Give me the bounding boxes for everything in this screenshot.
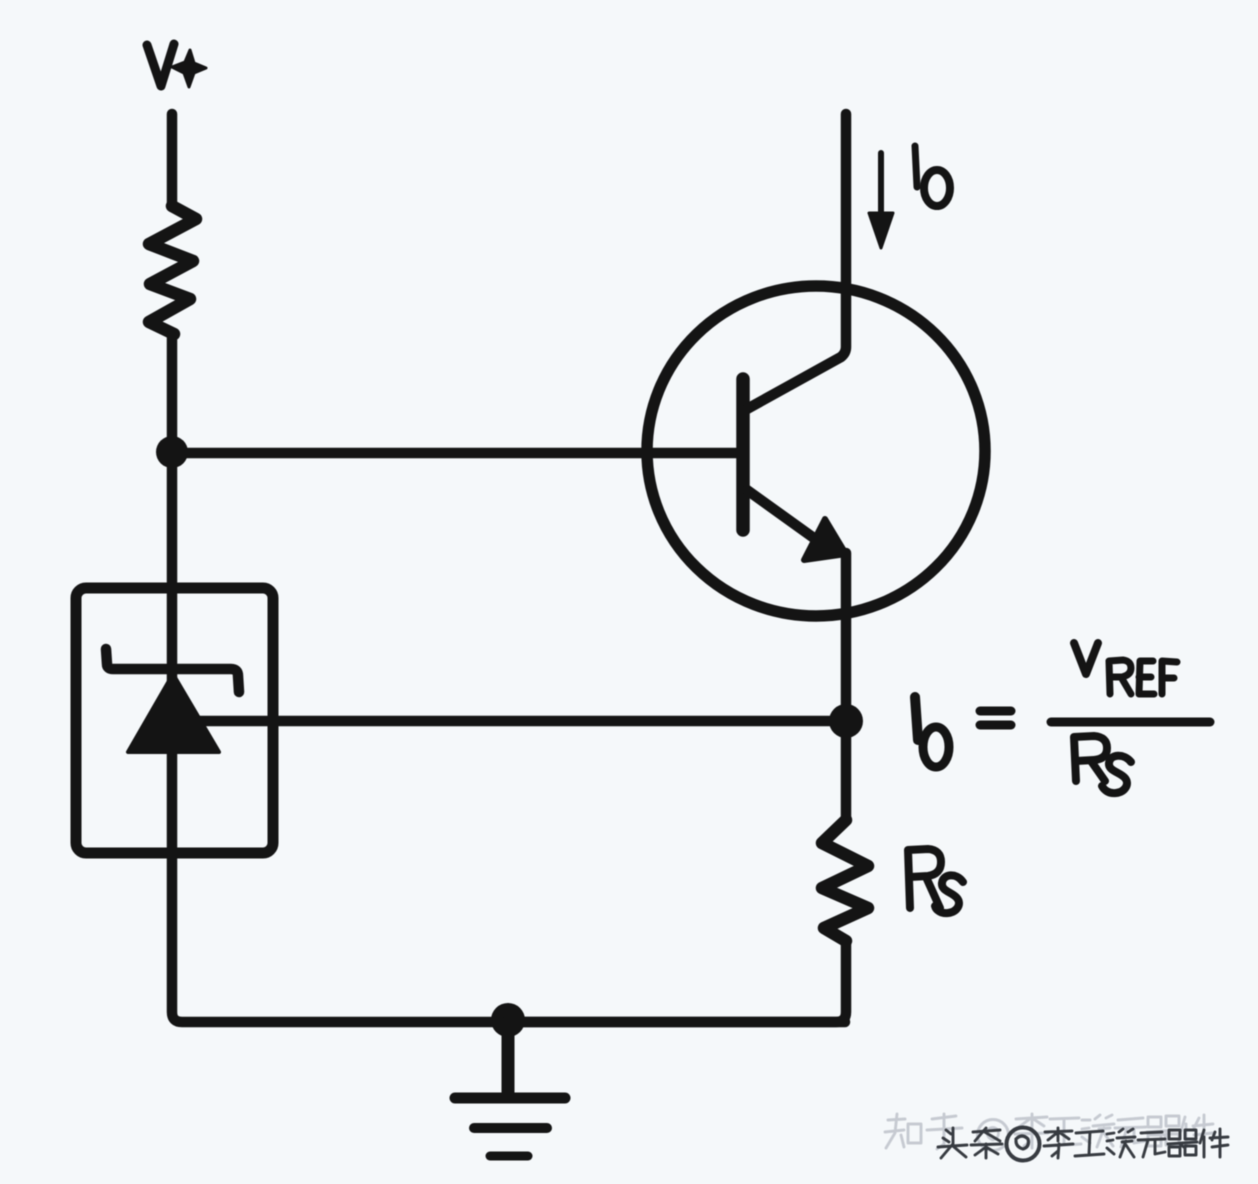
formula Io = VREF / RS [915,643,1210,793]
net label V+ [147,44,206,87]
node C (ground junction on bottom rail) [491,1003,525,1037]
R of RS denominator [1074,736,1107,781]
reference box U1 [76,588,273,853]
wire RS to bottom rail [508,941,846,1022]
watermark (dark: Toutiao) [938,1128,1228,1161]
R of REF [1109,660,1131,694]
wire V+ to R1 [167,114,178,207]
ground [455,1022,565,1156]
wire emitter to node B [841,553,852,721]
wire base (node A to transistor base) [172,448,740,459]
S of RS denominator [1102,756,1131,793]
wire R1 to node A [167,334,178,452]
wire reference output to node B [199,716,845,727]
transistor Q1 base bar [736,379,750,530]
wire left rail through reference to bottom [172,452,845,1022]
resistor RS [822,820,868,941]
label RS (beside resistor) [908,849,963,913]
label Io (top) [915,146,950,206]
V of VREF [1074,643,1098,674]
transistor Q1 emitter diagonal [747,490,818,541]
wire node B to RS [841,721,852,820]
transistor Q1 emitter arrowhead [804,519,846,560]
formula = [980,707,1011,716]
fraction bar [1051,718,1210,727]
transistor Q1 circle [647,286,985,616]
formula I [915,697,918,740]
E of REF [1139,661,1154,694]
node B (emitter / reference output junction) [829,704,863,738]
transistor Q1 collector (diagonal + vertical up) [747,114,846,409]
zener cathode bar of U1 [106,649,239,692]
watermark (light: Zhihu) [885,1114,1213,1151]
resistor R1 [149,206,196,334]
F of REF [1162,661,1177,694]
current arrow Io [869,153,893,248]
formula 0 [923,727,949,767]
node A (junction of R1, base wire, reference) [156,436,188,468]
zener anode triangle of U1 [128,674,219,752]
